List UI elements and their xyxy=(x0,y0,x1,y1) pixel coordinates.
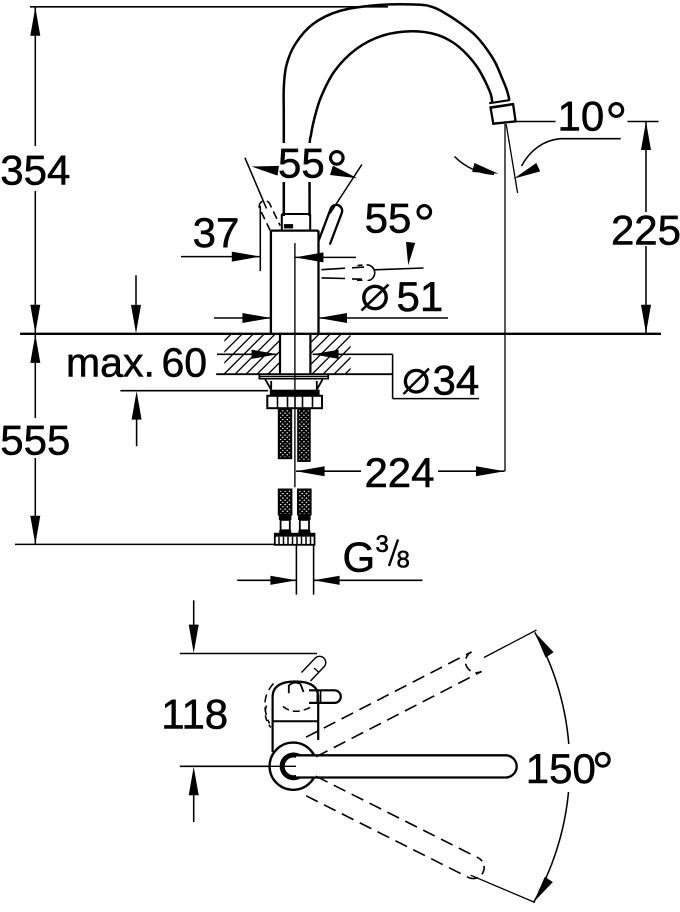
tv swing arc xyxy=(534,632,570,902)
lever right outline xyxy=(319,205,342,245)
svg-text:G: G xyxy=(343,533,376,580)
dim d34 line right xyxy=(313,353,393,355)
hose left step xyxy=(279,530,291,533)
mounting washer black xyxy=(270,390,320,395)
svg-text:60: 60 xyxy=(162,340,208,386)
lever axis extension left xyxy=(245,158,267,209)
countertop surface line xyxy=(20,333,661,335)
extension line hose ends xyxy=(15,543,276,545)
svg-text:3: 3 xyxy=(376,531,389,558)
spout aerator joint line 1 xyxy=(489,100,510,103)
dim 55a arrow left xyxy=(252,166,279,176)
dim 150 degree xyxy=(596,753,609,766)
dim 10 arc left arrow xyxy=(472,163,498,174)
dim 118 arrow up xyxy=(189,767,199,796)
dim d51 label bg xyxy=(356,281,438,313)
svg-text:55: 55 xyxy=(278,140,325,187)
dim 118 ext line upper xyxy=(180,653,317,655)
dim 354 line lower xyxy=(34,191,36,333)
dim 37 arrow right xyxy=(295,252,324,262)
dim d34 leader vertical xyxy=(392,354,394,398)
tv spout capsule xyxy=(296,755,517,777)
dim 37 line left xyxy=(181,256,260,258)
dim 37 line right xyxy=(295,256,356,258)
dim d51 phi xyxy=(362,285,389,311)
svg-text:118: 118 xyxy=(161,691,228,738)
dim 55b degree xyxy=(418,206,431,219)
dim 55b arrow down xyxy=(406,242,415,265)
tv phantom spout upper xyxy=(306,652,482,757)
mounting locknut xyxy=(267,396,322,408)
dim 555 arrow up xyxy=(30,334,40,363)
dim 354 arrow down xyxy=(30,305,40,334)
dim 10 degree xyxy=(610,104,623,117)
countertop hatching xyxy=(180,334,451,374)
tv swing arc arrow top xyxy=(535,632,554,657)
dim max60 lower shaft xyxy=(136,418,138,446)
mounting flange xyxy=(259,374,328,378)
dim 55a text bg xyxy=(276,143,350,182)
svg-text:354: 354 xyxy=(0,147,70,194)
body sides xyxy=(271,231,319,333)
dim max60 lower ext line xyxy=(120,390,268,392)
dim 224 arrow left xyxy=(296,466,325,476)
dim d34 arrow right xyxy=(313,350,339,359)
dim d51 line right xyxy=(319,317,449,319)
dim 118 ext line lower xyxy=(180,765,296,767)
cartridge black pin xyxy=(284,224,293,228)
tv phantom lever up xyxy=(302,656,326,681)
dim 55a degree xyxy=(331,152,344,165)
riser collar sides xyxy=(282,214,310,231)
dim 150 text bg xyxy=(522,744,620,792)
dim d34 leader horizontal xyxy=(393,398,479,400)
lever axis extension right xyxy=(330,165,362,214)
tv ext line upper xyxy=(484,630,537,658)
tv dashed dome hidden edge xyxy=(283,706,314,712)
water stream 10deg line xyxy=(506,124,517,193)
hose right ferrule xyxy=(298,515,311,520)
tv body sides xyxy=(273,721,319,752)
tv pivot outer circle xyxy=(270,743,317,790)
dim 55b leader line xyxy=(375,268,424,270)
dim 55a arrow right xyxy=(330,166,357,179)
tv body waist line xyxy=(273,720,319,722)
dim max60 arrow up xyxy=(132,391,142,420)
dim d51 arrow right xyxy=(319,313,348,323)
tv ext line lower xyxy=(471,875,535,902)
svg-text:51: 51 xyxy=(397,273,444,320)
dim 118 upper shaft xyxy=(193,600,195,626)
dim d34 line left xyxy=(217,353,278,355)
dim g38 ext right xyxy=(313,546,315,595)
lever phantom side dashes xyxy=(322,267,365,279)
dim g38 line left xyxy=(237,579,296,581)
svg-text:555: 555 xyxy=(0,417,70,464)
svg-text:max.: max. xyxy=(66,340,155,386)
tv handle lever xyxy=(309,690,341,703)
tv pivot inner ring xyxy=(282,755,301,778)
hose right step xyxy=(298,530,310,533)
mounting cone xyxy=(265,379,323,390)
tv dashed arc left outer xyxy=(265,684,274,724)
dim 10 arc left xyxy=(455,157,495,175)
dim 10 under-line xyxy=(561,138,621,140)
spout outer curve xyxy=(284,4,510,216)
body top line xyxy=(271,229,319,231)
body center line xyxy=(294,243,296,487)
lever phantom left outline xyxy=(259,201,280,231)
dim g38 label slash xyxy=(389,540,398,567)
dim 37 arrow left xyxy=(232,252,260,262)
dim 118 arrow down xyxy=(189,625,199,654)
dim 225 line upper xyxy=(645,122,647,213)
tv phantom spout lower xyxy=(306,776,479,878)
dim 555 line upper xyxy=(34,334,36,418)
spout inner curve xyxy=(310,31,493,216)
dim 225 arrow up xyxy=(641,122,651,151)
hose nuts xyxy=(275,534,315,545)
hose left tube xyxy=(281,520,290,530)
dim max60 arrow down xyxy=(131,305,141,334)
dim 10 leader left xyxy=(517,121,556,123)
dim 224 line left xyxy=(296,470,361,472)
lever phantom side cap xyxy=(357,265,375,281)
extension line top of spout xyxy=(30,6,388,8)
dim d34 phi xyxy=(404,369,430,395)
svg-text:10: 10 xyxy=(558,93,605,140)
svg-text:224: 224 xyxy=(364,449,434,496)
dim 555 text bg xyxy=(1,419,70,458)
dim 224 line right xyxy=(438,470,505,472)
dim max60 upper shaft xyxy=(135,275,137,306)
dim 354 text bg xyxy=(1,147,70,191)
dim 224 arrow right xyxy=(476,466,505,476)
svg-text:55: 55 xyxy=(365,194,412,241)
dim 555 arrow down xyxy=(30,516,40,545)
svg-text:37: 37 xyxy=(193,209,240,256)
countertop bottom line xyxy=(216,373,392,375)
svg-text:34: 34 xyxy=(433,357,480,404)
water stream vertical line xyxy=(504,124,506,471)
dim 10 arc right xyxy=(522,139,561,166)
dim d34 arrow left xyxy=(252,350,278,359)
dim 354 extension arrow up xyxy=(30,7,40,36)
dim 225 line lower xyxy=(645,246,647,333)
dim 10 leader right xyxy=(628,121,659,123)
dim d51 arrow left xyxy=(242,313,271,323)
hose left ferrule xyxy=(279,515,292,520)
dim g38 line right xyxy=(314,579,423,581)
dim g38 arrow right xyxy=(314,576,340,585)
tv lever hinge tab xyxy=(289,683,304,694)
svg-text:8: 8 xyxy=(397,547,410,574)
hose right tube xyxy=(300,520,309,530)
tv swing arc arrow bottom xyxy=(534,877,553,902)
dim g38 ext left xyxy=(295,546,297,595)
dim d51 line left xyxy=(214,317,271,319)
riser collar step line xyxy=(282,213,310,215)
dim 118 lower shaft xyxy=(193,794,195,822)
dim 37 extension line xyxy=(259,206,261,271)
dim g38 arrow left xyxy=(270,576,296,585)
tv cartridge dome xyxy=(273,682,319,722)
tv center tick xyxy=(246,765,296,767)
dim 555 line lower xyxy=(34,458,36,544)
dim 10 arc right arrow xyxy=(514,163,540,179)
svg-text:150: 150 xyxy=(526,745,596,792)
spout outlet block xyxy=(491,104,516,124)
dim 225 arrow down xyxy=(641,305,651,334)
tv dashed arc left inner xyxy=(265,706,271,728)
dim 354 line upper xyxy=(34,7,36,146)
shank sides xyxy=(280,334,310,374)
spout aerator joint line 2 xyxy=(490,105,511,108)
